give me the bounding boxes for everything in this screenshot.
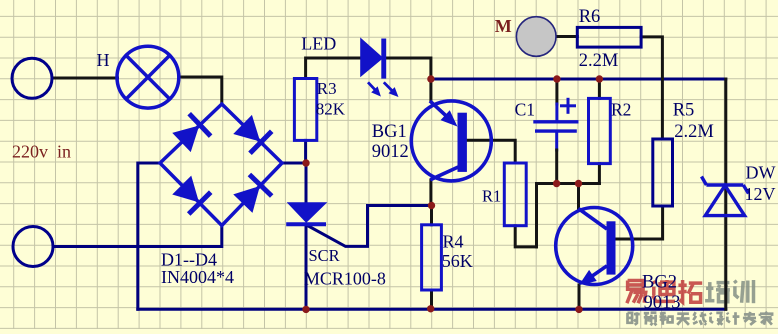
node: SCR gate/BG1/R4 junction: [428, 202, 435, 209]
svg-text:82K: 82K: [316, 100, 346, 119]
wire: bottom bus: [138, 308, 726, 311]
motor M: [516, 17, 556, 57]
svg-text:MCR100-8: MCR100-8: [304, 269, 386, 289]
wire: R2 bottom stub: [598, 164, 601, 184]
resistor R2: [589, 98, 611, 163]
wire: node down to SCR anode: [305, 163, 308, 204]
node: SCR cathode/bottom bus junction: [302, 306, 309, 313]
svg-text:IN4004*4: IN4004*4: [161, 267, 234, 287]
svg-text:BG2: BG2: [642, 273, 677, 293]
svg-text:56K: 56K: [442, 251, 473, 271]
wire: BG2 base to R5 bottom: [616, 206, 663, 239]
diode D4 (bottom-right arm): [234, 175, 272, 212]
diode D1 (top-left arm): [173, 114, 210, 152]
connector bottom-left: [13, 227, 53, 267]
wire: C1 top pin: [555, 104, 558, 122]
wire: R4 bottom stub: [430, 290, 433, 309]
resistor R4: [422, 225, 442, 290]
wire: BG2 collector stub: [577, 184, 580, 209]
wire: bridge right vertex to R3/SCR node: [282, 162, 306, 165]
svg-text:9013: 9013: [644, 293, 681, 313]
wire: C1 bottom pin: [555, 131, 558, 150]
node: LED/bus/BG1 junction: [427, 75, 434, 82]
wire: R1 bottom jog: [515, 226, 536, 247]
svg-text:R2: R2: [611, 100, 631, 120]
svg-text:R6: R6: [579, 7, 601, 27]
wire: lamp to bridge top vertex: [179, 77, 222, 104]
svg-text:R5: R5: [673, 101, 695, 121]
transistor BG2 (NPN 9013): [556, 208, 633, 285]
svg-text:SCR: SCR: [309, 246, 340, 265]
svg-text:M: M: [495, 16, 512, 36]
transistor BG1 (PNP 9012): [411, 101, 491, 181]
svg-text:R4: R4: [443, 231, 464, 251]
bridge rectifier D1--D4: [160, 104, 282, 226]
watermark logo text (red+gray brand glyphs): [627, 280, 754, 303]
svg-text:220v in: 220v in: [12, 142, 71, 162]
wire: motor M to R6: [557, 35, 578, 38]
wire: BG1 emitter stub: [429, 79, 432, 101]
wire: mid rail riser and horizontal: [537, 184, 600, 247]
node: R3/bridge/SCR junction: [302, 159, 309, 166]
connector top-left: [12, 58, 52, 98]
resistor R6: [577, 27, 641, 47]
node: BG2 emitter/bottom bus junction: [575, 306, 582, 313]
node: mid rail/BG2 collector junction: [575, 180, 582, 187]
wire: BG1 collector stub to gate node: [429, 180, 432, 205]
svg-text:H: H: [97, 50, 110, 70]
lamp H: [117, 46, 179, 108]
wire: R3 bottom stub: [304, 140, 307, 163]
svg-text:12V: 12V: [745, 184, 776, 204]
svg-text:BG1: BG1: [372, 122, 407, 142]
svg-text:R1: R1: [482, 187, 501, 206]
wire: R3 top corner to LED anode: [306, 58, 361, 79]
wire: bridge left vertex down to bottom bus: [138, 163, 160, 309]
watermark slogan row (gray glyphs): [628, 312, 773, 326]
wire: C1 top wire: [555, 79, 558, 104]
svg-text:C1: C1: [515, 100, 535, 120]
wire: input bottom connector to bridge bottom vertex: [53, 226, 222, 247]
wire: BG2 emitter to bottom bus: [578, 285, 581, 309]
wire: SCR gate to R4 node: [307, 206, 431, 247]
node: R4/bottom bus junction: [427, 305, 434, 312]
resistor R1: [504, 163, 526, 226]
diode D3 (bottom-left arm): [173, 177, 211, 214]
wire: input top connector to lamp: [52, 77, 118, 80]
LED: [361, 39, 398, 97]
wire: LED cathode to top bus corner: [386, 58, 431, 79]
wire: C1 bottom wire to mid rail: [555, 150, 558, 184]
zener diode DW: [702, 177, 749, 216]
node: bus/R2 junction: [596, 75, 603, 82]
svg-text:2.2M: 2.2M: [674, 122, 714, 142]
node: bus/C1 junction: [553, 75, 560, 82]
svg-text:2.2M: 2.2M: [579, 51, 619, 71]
svg-text:LED: LED: [301, 34, 336, 54]
svg-text:9012: 9012: [372, 142, 409, 162]
wire: R4 top stub: [430, 206, 433, 225]
wire: SCR cathode to bottom bus: [305, 224, 308, 309]
resistor R3: [294, 79, 316, 141]
wire: R2 top stub: [598, 79, 601, 98]
svg-text:DW: DW: [746, 163, 776, 183]
wire: R6 right down to R5 top: [641, 37, 662, 139]
capacitor C1: [533, 99, 578, 131]
node: mid rail/C1 junction: [553, 180, 560, 187]
svg-text:R3: R3: [317, 79, 337, 98]
resistor R5: [653, 139, 673, 206]
wire: DW branch vertical: [724, 79, 727, 309]
wire: top bus: [431, 78, 726, 81]
wire: BG1 base to R1 top: [467, 140, 515, 163]
SCR: [286, 203, 326, 225]
diode D2 (top-right arm): [234, 116, 272, 154]
